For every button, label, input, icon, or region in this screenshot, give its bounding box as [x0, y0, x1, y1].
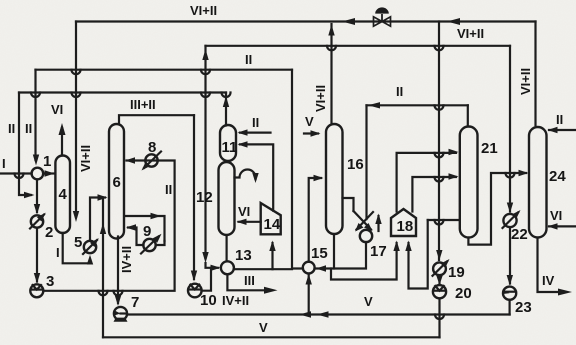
arrowhead into column24 feed	[519, 170, 529, 176]
svg-text:III: III	[244, 273, 255, 288]
hop pump3 line x103	[99, 291, 108, 296]
svg-text:4: 4	[59, 186, 68, 203]
column 4	[55, 156, 70, 234]
arrowhead left on V line before junction	[300, 311, 312, 317]
arrowhead into circle15 right	[316, 265, 326, 271]
arrowhead stream IV out	[558, 289, 572, 296]
svg-text:8: 8	[148, 139, 156, 156]
arrowhead up into L1	[328, 25, 334, 36]
wire column21 bottoms loop to column24	[468, 173, 526, 245]
wire circle15 branch from V line	[308, 276, 310, 315]
arrowhead V into column16	[311, 130, 321, 136]
junction mark L4 riser x226	[222, 93, 231, 98]
svg-text:14: 14	[264, 216, 281, 233]
hop L3 x76	[72, 70, 81, 75]
arrowhead up into tank18 left	[393, 241, 399, 252]
svg-text:II: II	[396, 84, 403, 99]
hop V line x439.5	[435, 315, 444, 320]
arrowhead up under L2	[202, 49, 208, 60]
svg-text:3: 3	[46, 273, 54, 290]
wire exchanger1 to column4	[43, 172, 54, 174]
tank 14	[261, 203, 281, 234]
svg-text:17: 17	[370, 243, 387, 260]
wire riser column12 overhead x205.5	[204, 46, 206, 258]
svg-text:7: 7	[131, 294, 139, 311]
control valve	[374, 7, 391, 26]
svg-text:12: 12	[196, 189, 213, 206]
svg-text:1: 1	[43, 153, 51, 170]
svg-text:11: 11	[222, 139, 238, 156]
column 16	[326, 124, 343, 234]
wire L1 top VI+II header	[76, 20, 536, 22]
wire drop x439 from L1	[438, 22, 440, 261]
wire circle17 leg down and left to circle15	[316, 242, 366, 269]
wire column16 side bracket to mixer17	[343, 198, 354, 211]
wire pump23 bottom corner to V line	[509, 300, 511, 315]
arrowhead up on x103	[100, 223, 106, 234]
wire exchanger22 down to pump23	[509, 228, 511, 284]
arrowhead VI into column24	[548, 223, 558, 229]
wire L4 II line	[19, 91, 226, 93]
svg-text:II: II	[556, 112, 563, 127]
svg-text:20: 20	[455, 285, 472, 302]
arrowhead into column21 lower	[449, 173, 459, 179]
exchanger 22	[503, 210, 521, 228]
svg-text:II: II	[25, 121, 32, 136]
wire left VI+II drop at x76	[75, 22, 77, 217]
arrowhead into column21 upper	[449, 149, 459, 155]
hop L2 x331.5 junction	[327, 46, 336, 51]
hop L2 x439	[435, 46, 444, 51]
wire left edge II drop x19	[18, 93, 20, 174]
exchanger 1	[32, 168, 44, 180]
arrowhead down on seal loop	[252, 173, 258, 183]
pump 20	[433, 285, 446, 298]
svg-text:IV+II: IV+II	[222, 293, 249, 308]
arrowhead down into pump20	[436, 276, 442, 286]
arrowhead down near circle13	[202, 252, 208, 263]
exchanger 2	[30, 213, 46, 229]
hop pump3 line x118	[114, 291, 123, 296]
wire exchanger8 to column6	[127, 159, 146, 161]
wire tank18 left top riser and line to column21	[397, 153, 456, 212]
arrowhead up into tank18 right	[405, 241, 411, 252]
arrowhead down on x76	[73, 211, 79, 222]
svg-text:22: 22	[511, 226, 528, 243]
wire stream I feed	[1, 172, 32, 174]
vessel 11	[220, 125, 236, 161]
arrowhead into vessel12	[237, 219, 247, 225]
svg-text:9: 9	[143, 223, 151, 240]
svg-text:VI: VI	[238, 204, 250, 219]
svg-text:VI: VI	[51, 102, 63, 117]
wire pump20 down to bottom V line corner	[438, 299, 440, 338]
hop L4 x76	[72, 93, 81, 98]
diagonal into mixer17 from x366	[357, 212, 374, 230]
arrowhead down into pump7	[115, 296, 121, 307]
wire circle10 feed drop x194	[193, 115, 195, 279]
pump 23	[503, 287, 516, 300]
svg-text:5: 5	[74, 234, 82, 251]
exchanger 19	[433, 259, 450, 276]
wire column21 side draw y220	[428, 219, 458, 221]
mixer 17	[360, 230, 372, 242]
arrowhead left on II line	[368, 102, 380, 108]
arrowhead down into exchanger1	[33, 155, 39, 166]
wire exchanger2 down to pump3	[36, 228, 38, 282]
arrowhead into column6	[98, 194, 108, 200]
arrowhead into circle13	[211, 265, 221, 271]
svg-text:16: 16	[347, 156, 364, 173]
wire exchanger19 to pump20	[438, 275, 440, 283]
wire circle13 right to circle15 / tank14 branch	[234, 268, 292, 270]
junction mark I feed x19	[15, 174, 24, 179]
wire L2 drop x510 to exchanger22	[509, 46, 511, 212]
tank 18	[391, 209, 416, 236]
svg-text:I: I	[2, 156, 6, 171]
arrowhead into column16 lower feed	[314, 175, 324, 181]
arrowhead left on L1 right	[447, 18, 460, 25]
wire riser x331.5 from L2 up to L1	[330, 24, 332, 46]
arrowhead right on loop top	[151, 213, 162, 219]
wire pump3 discharge to exchanger8 riser	[44, 161, 175, 291]
wire branch from I junction down	[19, 174, 31, 196]
wire reboiler9 loop upper: column6 to right leg	[125, 216, 165, 241]
wire circle13 feed elbow from x205 area	[206, 263, 219, 268]
wire stream II drop x366 from column21 overhead	[365, 105, 367, 219]
svg-text:10: 10	[200, 292, 217, 309]
wire L5 III+II line	[119, 115, 194, 124]
arrowhead right joining drop	[24, 192, 35, 198]
svg-text:III+II: III+II	[130, 97, 156, 112]
wire reboiler9 right leg into circle9	[156, 241, 165, 245]
arrowhead down into pump3	[34, 273, 40, 284]
arrowhead into column4	[45, 170, 55, 176]
arrowhead stream III out	[264, 287, 278, 294]
hop col24 feed x510	[506, 173, 515, 178]
wire bottom stream V return line	[103, 336, 440, 338]
svg-text:V: V	[305, 114, 314, 129]
hop L4 x205.5	[201, 93, 210, 98]
pump 3	[30, 284, 43, 297]
arrowhead into vessel11 lower	[238, 141, 248, 147]
wire riser x103 from bottom V line area	[102, 198, 104, 338]
hop y220 x439	[435, 220, 444, 225]
svg-text:6: 6	[113, 174, 121, 191]
arrowhead diagonal down-right	[364, 223, 373, 231]
svg-text:II: II	[252, 115, 259, 130]
vapor stub up beside mixer17	[377, 216, 379, 231]
exchanger 8	[142, 152, 162, 171]
wire tank18 right top riser and line to column21	[412, 177, 456, 212]
wire exchanger1 down to exchanger2	[36, 180, 38, 213]
svg-text:VI+II: VI+II	[457, 26, 484, 41]
arrowhead up on riser x226	[223, 96, 229, 107]
arrowhead II into column24	[548, 127, 558, 133]
arrowhead left on L1 mid	[342, 18, 355, 25]
wire exchanger5 top to column6 feed	[90, 198, 105, 241]
svg-text:19: 19	[448, 264, 465, 281]
wire pump10 discharge elbow to circle13	[202, 268, 212, 291]
wire L3 II line	[36, 69, 293, 71]
arrowhead up on stub	[375, 214, 381, 225]
hop tank18 line1 x439	[435, 153, 444, 158]
wire stream II stub into column24	[549, 129, 576, 131]
hop tank18 line2 x439	[435, 177, 444, 182]
arrowhead up into circle15 bottom	[306, 274, 312, 285]
svg-text:V: V	[364, 294, 373, 309]
wire VI+II drop x331.5 into column16 top	[330, 46, 332, 123]
wire stream VI stub into column24 lower	[549, 225, 576, 227]
wire column4 bottoms to exchanger5	[63, 233, 90, 263]
wire riser x226 vessel11 overhead to L4	[225, 93, 227, 126]
wire reboiler9 return to column6	[128, 228, 144, 246]
svg-text:18: 18	[397, 218, 414, 235]
wire circle15 riser to column16 feed	[309, 178, 321, 262]
mixer 13	[221, 261, 234, 274]
wire L3 drop x292 down to circle15	[292, 70, 301, 269]
svg-text:II: II	[165, 182, 172, 197]
mixer 15	[303, 262, 315, 274]
wire column6 bottoms to pump7	[117, 237, 119, 304]
diagonal into mixer17 from bracket	[354, 211, 372, 230]
arrowhead diagonal down-left	[355, 223, 364, 232]
svg-text:VI+II: VI+II	[78, 145, 93, 172]
arrowhead down into exchanger22	[507, 203, 513, 214]
svg-text:I: I	[56, 245, 60, 260]
wire column24 bottoms to stream IV out	[538, 238, 566, 292]
svg-text:VI+II: VI+II	[518, 68, 533, 95]
arrowhead into column6 at exchanger8 line	[125, 157, 135, 163]
svg-text:VI+II: VI+II	[313, 85, 328, 112]
exchanger 5	[83, 238, 99, 254]
arrowhead down into exchanger19	[436, 250, 442, 261]
svg-text:II: II	[245, 52, 252, 67]
column 21	[460, 127, 478, 238]
svg-text:21: 21	[481, 140, 498, 157]
svg-text:VI: VI	[550, 208, 562, 223]
seal loop under vessel11	[235, 170, 256, 180]
wire stream VI from tank14 to vessel12	[239, 221, 261, 223]
wire tank14 top riser to vessel11	[240, 144, 273, 210]
svg-text:23: 23	[515, 299, 532, 316]
wire vessel12 bottoms to circle13	[226, 235, 228, 261]
wire tank14 bottom feed branch	[271, 243, 273, 269]
column 6	[109, 124, 124, 239]
svg-text:2: 2	[45, 224, 53, 241]
pump 10	[188, 284, 202, 298]
wire stream II stub into vessel11	[240, 132, 271, 134]
arrowhead up into exchanger5 bottom	[87, 255, 93, 265]
reboiler 9	[141, 234, 162, 254]
wire circle13 to stream III out	[227, 274, 268, 290]
wire L1 right corner drop x535.5 into column24 top	[534, 22, 536, 126]
arrowhead VI up	[59, 123, 66, 135]
column 24	[529, 127, 547, 238]
wire tank18 right bottom feed line	[409, 220, 428, 289]
hop L3 x205.5	[201, 70, 210, 75]
svg-text:24: 24	[549, 168, 566, 185]
arrowhead into column6 from reboiler9	[126, 224, 136, 230]
arrowhead down into pump23	[507, 275, 513, 286]
svg-text:II: II	[8, 121, 15, 136]
wire column16 bottoms down to circle15 merge	[333, 235, 335, 269]
arrowhead up into tank14	[269, 241, 275, 252]
wire L2 second header	[206, 45, 511, 47]
arrowhead down into exchanger2	[34, 204, 40, 215]
wire stream V line	[127, 313, 510, 315]
svg-text:IV+II: IV+II	[119, 246, 134, 273]
arrowhead left on V line after junction	[317, 311, 329, 317]
arrowhead down into circle10	[191, 271, 197, 282]
wire V stub into column16	[304, 132, 318, 134]
wire column21 overhead riser	[467, 105, 469, 126]
hop II line x439	[435, 105, 444, 110]
svg-text:15: 15	[311, 245, 328, 262]
svg-text:IV: IV	[542, 273, 555, 288]
hop L4 x35.5	[31, 93, 40, 98]
wire left edge II drop x35.5 into exchanger1	[34, 70, 36, 160]
svg-text:VI+II: VI+II	[190, 3, 217, 18]
svg-text:V: V	[259, 320, 268, 335]
wire stream VI out of column4 top	[61, 128, 63, 156]
svg-text:13: 13	[235, 247, 252, 264]
wire column21 overhead II line	[367, 104, 468, 106]
pump 7	[114, 307, 128, 322]
arrowhead into vessel11 upper	[238, 129, 248, 135]
vessel 12	[219, 162, 235, 235]
wire tank18 left bottom feed line	[331, 243, 397, 280]
